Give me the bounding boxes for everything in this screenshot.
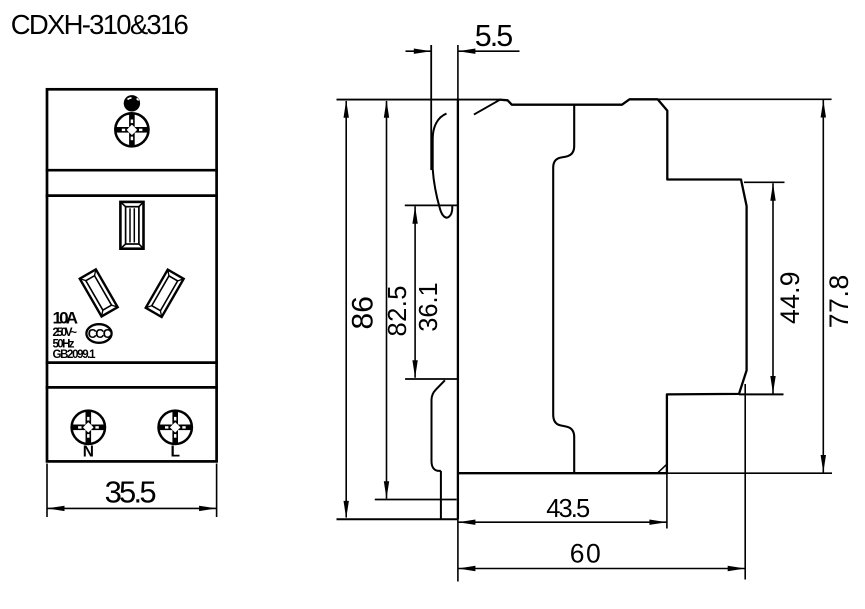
front view panel line 2 bbox=[46, 194, 218, 197]
dimension 77.8 bbox=[821, 100, 854, 473]
43.5/60 left extension line bbox=[457, 519, 459, 581]
standard text GB2099.1 bbox=[53, 349, 97, 361]
left angled slot (N pole) bbox=[80, 269, 118, 316]
side view top profile (notch, recessed top, right top corner) bbox=[458, 99, 747, 473]
DIN clip rail jaw top edge / 36.1 upper extension bbox=[405, 204, 458, 206]
foot bottom / 86 lower extension line bbox=[337, 518, 458, 520]
82.5 lower extension line bbox=[375, 499, 457, 501]
dimension 82.5 bbox=[384, 100, 412, 499]
terminal screw L bbox=[159, 410, 192, 444]
rating text 50Hz bbox=[53, 339, 75, 351]
mounting screw head top (phillips) bbox=[115, 113, 148, 146]
svg-text:CDXH-310&316: CDXH-310&316 bbox=[11, 9, 189, 40]
svg-text:82.5: 82.5 bbox=[384, 286, 412, 337]
top-right extension line (77.8 upper) bbox=[658, 98, 832, 100]
DIN clip hood diagonal edge bbox=[474, 100, 500, 115]
svg-text:250V~: 250V~ bbox=[53, 327, 78, 339]
44.9 upper extension line bbox=[744, 181, 785, 183]
side view left body edge bbox=[457, 100, 459, 520]
svg-text:44.9: 44.9 bbox=[775, 271, 805, 324]
CCC certification mark bbox=[86, 324, 111, 343]
svg-text:35.5: 35.5 bbox=[105, 475, 157, 510]
terminal label L bbox=[170, 444, 179, 461]
dimension 43.5 bbox=[458, 495, 667, 525]
terminal label N bbox=[83, 444, 94, 461]
earth slot (vertical) bbox=[120, 202, 143, 249]
DIN clip foot left edge bbox=[440, 471, 442, 519]
side view top surface line (left, with 86/82.5 extension) bbox=[337, 99, 501, 101]
svg-text:60: 60 bbox=[570, 538, 601, 568]
DIN clip spring curve bbox=[433, 114, 453, 218]
DIN clip rail jaw bottom edge / 36.1 lower extension bbox=[405, 378, 458, 380]
internal body separation line bbox=[553, 105, 574, 474]
rating text 250V~ bbox=[53, 327, 78, 339]
dimension 60 bbox=[458, 538, 745, 571]
svg-text:43.5: 43.5 bbox=[546, 495, 590, 523]
svg-text:77.8: 77.8 bbox=[824, 275, 854, 329]
dimension 35.5 bbox=[47, 464, 217, 518]
svg-text:L: L bbox=[170, 444, 179, 461]
svg-text:N: N bbox=[83, 444, 94, 461]
svg-text:36.1: 36.1 bbox=[415, 282, 443, 332]
svg-text:CCC: CCC bbox=[88, 327, 112, 341]
rating text 10A bbox=[53, 309, 79, 328]
front view panel line 4 bbox=[46, 386, 218, 389]
dimension 44.9 bbox=[770, 183, 805, 393]
front view body outline bbox=[47, 89, 217, 461]
right angled slot (L pole) bbox=[146, 270, 184, 317]
43.5 right extension line bbox=[666, 473, 668, 528]
mounting screw knob (small filled circle) bbox=[124, 95, 140, 111]
title CDXH-310&316 bbox=[11, 9, 189, 40]
front view panel line 1 bbox=[46, 169, 218, 172]
terminal screw N bbox=[72, 410, 105, 444]
60 right extension line bbox=[744, 384, 746, 580]
dimension 5.5 bbox=[406, 19, 520, 170]
44.9 lower extension line bbox=[739, 393, 784, 395]
bottom extension line (77.8 lower) bbox=[667, 472, 832, 474]
bottom-right inner chamfer mark bbox=[658, 465, 666, 473]
front view panel line 3 bbox=[46, 361, 218, 364]
dimension 86 bbox=[344, 100, 380, 518]
svg-text:10A: 10A bbox=[53, 309, 79, 328]
DIN clip lower jaw outline bbox=[432, 380, 445, 471]
svg-text:GB2099.1: GB2099.1 bbox=[53, 349, 97, 361]
svg-text:86: 86 bbox=[347, 296, 380, 330]
dimension 36.1 bbox=[412, 206, 443, 377]
svg-text:5.5: 5.5 bbox=[475, 19, 514, 53]
